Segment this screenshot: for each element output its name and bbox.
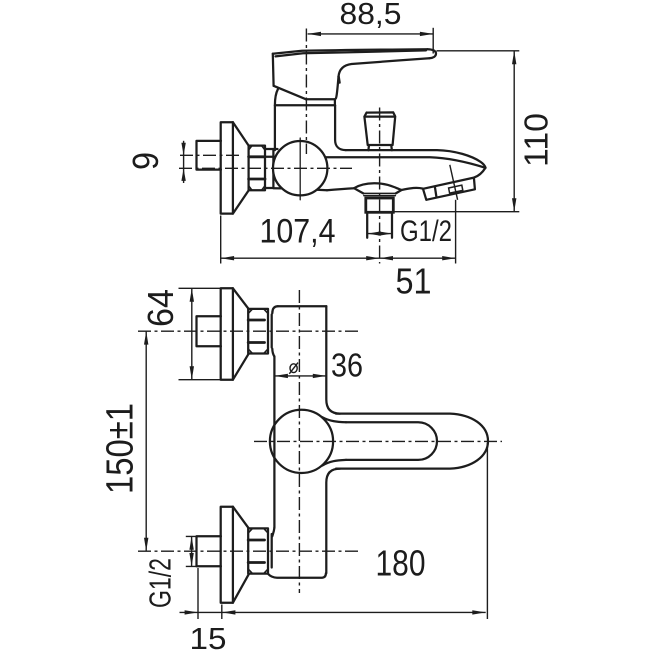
svg-text:G1/2: G1/2 [143,558,178,608]
svg-text:150±1: 150±1 [100,403,142,494]
svg-text:180: 180 [376,543,426,584]
svg-text:107,4: 107,4 [260,213,336,251]
svg-text:110: 110 [518,113,555,167]
svg-text:15: 15 [190,621,227,650]
svg-text:64: 64 [140,289,181,327]
svg-text:9: 9 [125,152,166,170]
svg-text:51: 51 [396,261,432,302]
svg-text:88,5: 88,5 [340,0,402,31]
svg-text:36: 36 [331,347,363,384]
svg-text:G1/2: G1/2 [400,215,452,248]
